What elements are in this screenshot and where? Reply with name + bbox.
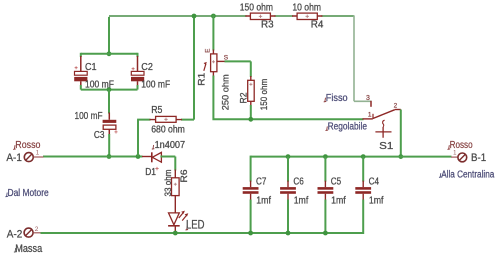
capacitor C3 [75,111,118,141]
node junction LED bottom [173,231,178,236]
node junction C1C2 top [107,51,112,56]
wire R1 column top [212,15,214,50]
svg-text:C4: C4 [369,176,380,187]
node junction R2 bottom [248,117,253,122]
terminal A-2 [7,226,41,241]
svg-text:Rosso: Rosso [450,140,473,151]
wire R5 branch [137,15,194,156]
wire R1 wiper to R2 [217,60,226,62]
node junction C1C2 bottom [107,87,112,92]
svg-text:100 mF: 100 mF [141,80,170,91]
svg-text:A-2: A-2 [7,229,22,241]
wire top right rail [251,156,452,158]
svg-text:680 ohm: 680 ohm [151,124,185,135]
svg-text:R5: R5 [151,105,163,116]
text Massa [14,243,43,255]
svg-text:LED: LED [186,220,205,232]
capacitor C2 [131,62,170,91]
text Rosso left [13,140,41,151]
text Rosso right [448,140,473,151]
svg-text:3: 3 [366,95,370,102]
svg-text:C3: C3 [94,130,105,141]
resistor R3 [240,3,274,31]
text Alla Centralina [439,169,495,180]
wire C3 column [108,90,110,114]
svg-text:C2: C2 [141,62,153,73]
svg-text:A-1: A-1 [6,152,22,164]
wire C1 C2 top frame [81,53,138,55]
wire main left rail [43,156,143,158]
svg-text:10 ohm: 10 ohm [292,3,321,14]
svg-text:Massa: Massa [15,243,43,255]
resistor R2 [239,79,271,111]
svg-text:S1: S1 [379,140,393,152]
svg-text:150 ohm: 150 ohm [240,3,273,14]
wire top rail [109,15,354,17]
resistor R6 [163,169,190,196]
node junction switch rail [398,154,403,159]
svg-text:1: 1 [453,150,457,156]
capacitor C7 [243,156,271,236]
svg-text:C6: C6 [293,176,304,187]
svg-text:100 mF: 100 mF [85,80,114,91]
wire top-left vertical [108,17,110,54]
wire C1 column [80,53,82,57]
terminal A-1 [6,151,43,165]
svg-text:R3: R3 [261,20,274,31]
diode D1 [142,140,185,178]
wire bottom rail (Massa) [41,232,364,234]
svg-text:Rosso: Rosso [15,140,41,151]
svg-text:33 ohm: 33 ohm [163,169,174,196]
text Dal Motore [5,187,48,199]
svg-text:1: 1 [368,112,372,119]
terminal B-1 [451,150,486,164]
svg-text:C1: C1 [85,62,97,73]
wire switch to rail [400,110,402,157]
node junction R5 top rail [192,14,197,19]
capacitor C1 [74,62,114,91]
resistor R4 [292,3,323,31]
capacitor C5 [318,154,346,235]
svg-text:1mf: 1mf [331,195,346,206]
svg-text:D1: D1 [145,167,156,178]
svg-text:150 ohm: 150 ohm [259,79,270,111]
svg-text:Dal Motore: Dal Motore [8,187,49,199]
wire diode to R6 branch [160,157,175,171]
wire Fisso net [354,15,372,101]
node junction R5 branch [136,154,141,159]
wire R6 to LED [174,196,176,214]
wire R3 R4 pins [245,15,322,17]
svg-text:Alla Centralina: Alla Centralina [441,169,494,180]
text Fisso [324,92,348,104]
capacitor C4 [355,154,383,234]
svg-text:2: 2 [394,103,398,110]
svg-text:R2: R2 [239,93,250,104]
wire R1 bottom to switch (Regolabile net) [212,72,214,77]
text Regolabile [326,121,368,133]
svg-text:100 mF: 100 mF [75,111,103,122]
svg-text:B-1: B-1 [471,152,486,164]
svg-text:R4: R4 [311,20,324,31]
node junction C3 bottom on rail [107,154,112,159]
resistor R5 [151,105,185,135]
svg-text:Regolabile: Regolabile [328,121,368,133]
wire R2 bottom [250,101,252,106]
svg-text:1mf: 1mf [294,195,309,206]
LED [168,211,204,232]
svg-text:1: 1 [36,151,40,157]
capacitor C6 [280,154,308,235]
svg-text:250 ohm: 250 ohm [221,74,232,110]
svg-text:1mf: 1mf [369,195,384,206]
switch S1 [366,95,401,152]
svg-text:E: E [204,49,211,53]
wire C2 column [137,53,139,57]
svg-text:1n4007: 1n4007 [155,140,186,151]
svg-text:2: 2 [35,226,39,233]
svg-text:R1: R1 [196,73,207,86]
svg-text:C7: C7 [256,176,267,187]
trimmer R1 [196,49,231,111]
svg-text:1mf: 1mf [256,195,271,206]
node junction R1 top [211,14,216,19]
svg-text:C5: C5 [331,176,342,187]
svg-text:Fisso: Fisso [326,92,348,104]
wire C1 C2 bottom frame [81,89,138,91]
svg-text:R6: R6 [179,170,190,183]
